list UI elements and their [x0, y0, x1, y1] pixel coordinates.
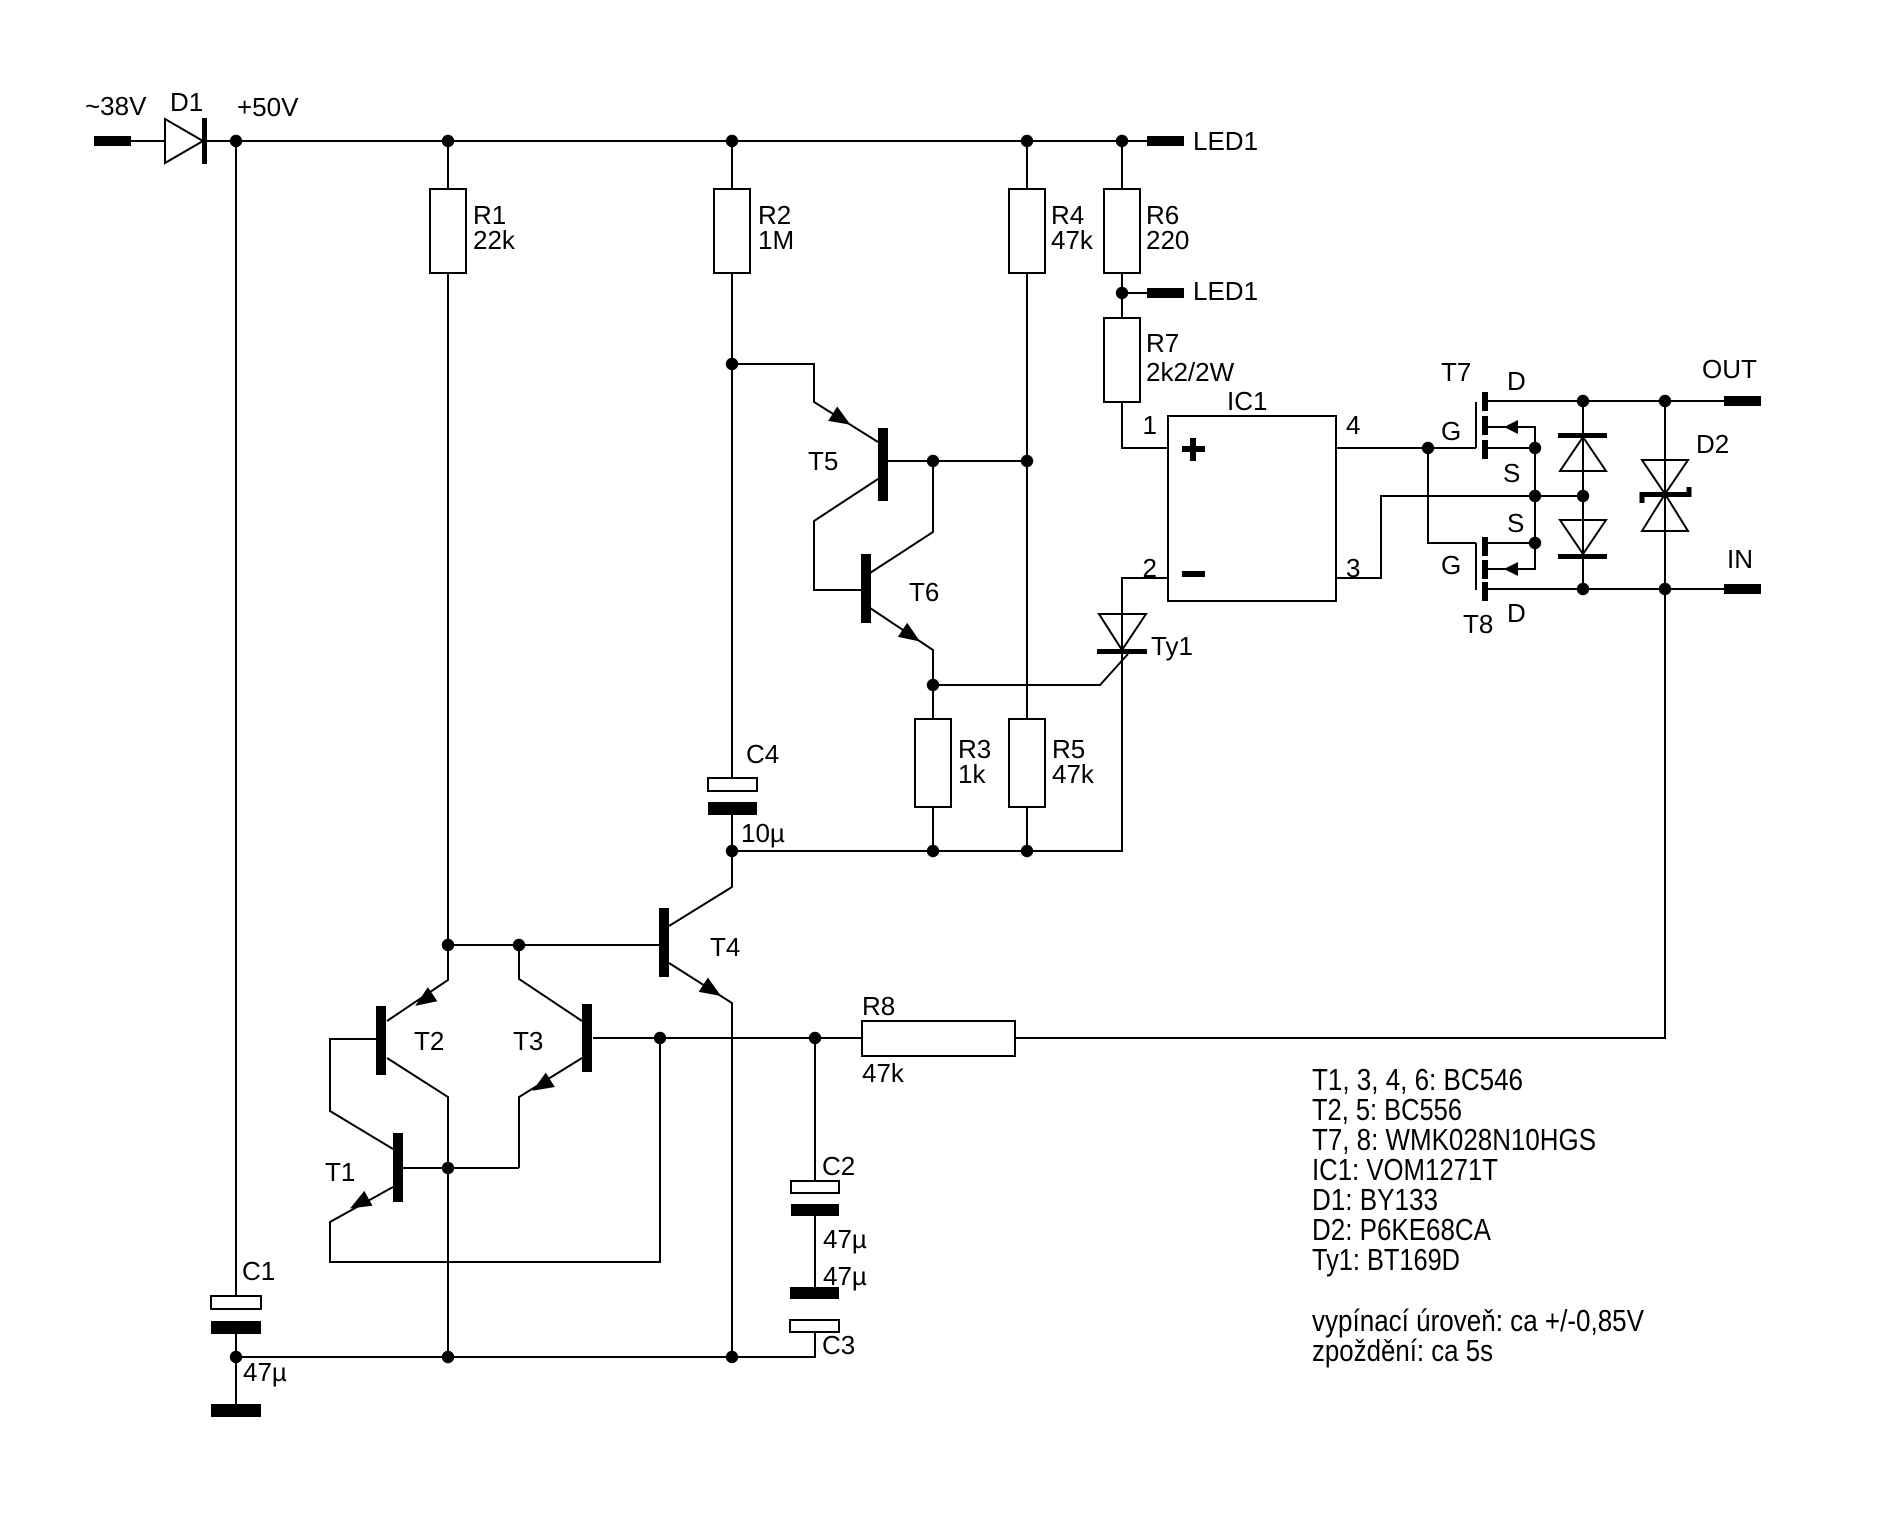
svg-text:Ty1: Ty1 — [1151, 631, 1193, 661]
svg-text:C4: C4 — [746, 739, 779, 769]
svg-text:C2: C2 — [822, 1151, 855, 1181]
svg-text:C1: C1 — [242, 1256, 275, 1286]
svg-text:1M: 1M — [758, 225, 794, 255]
svg-text:47µ: 47µ — [823, 1224, 867, 1254]
svg-text:OUT: OUT — [1702, 354, 1757, 384]
svg-text:T3: T3 — [513, 1026, 543, 1056]
svg-text:R7: R7 — [1146, 328, 1179, 358]
svg-text:C3: C3 — [822, 1330, 855, 1360]
svg-text:T4: T4 — [710, 932, 740, 962]
svg-text:T6: T6 — [909, 577, 939, 607]
svg-text:2k2/2W: 2k2/2W — [1146, 357, 1235, 387]
svg-text:S: S — [1507, 508, 1524, 538]
svg-text:S: S — [1503, 458, 1520, 488]
svg-text:4: 4 — [1346, 410, 1360, 440]
svg-text:3: 3 — [1346, 553, 1360, 583]
svg-text:D2: D2 — [1696, 429, 1729, 459]
svg-text:IN: IN — [1727, 544, 1753, 574]
svg-text:47µ: 47µ — [243, 1357, 287, 1387]
svg-text:zpoždění: ca 5s: zpoždění: ca 5s — [1312, 1333, 1493, 1368]
svg-text:D1: D1 — [170, 87, 203, 117]
svg-text:T7: T7 — [1441, 357, 1471, 387]
svg-text:22k: 22k — [473, 225, 516, 255]
svg-text:R8: R8 — [862, 991, 895, 1021]
svg-text:D: D — [1507, 598, 1526, 628]
svg-text:+50V: +50V — [237, 92, 299, 122]
svg-text:T1: T1 — [325, 1157, 355, 1187]
svg-text:T2: T2 — [414, 1026, 444, 1056]
svg-text:T5: T5 — [808, 446, 838, 476]
svg-text:47k: 47k — [1052, 759, 1095, 789]
svg-text:Ty1: BT169D: Ty1: BT169D — [1312, 1242, 1460, 1277]
svg-text:G: G — [1441, 550, 1461, 580]
svg-text:220: 220 — [1146, 225, 1189, 255]
svg-text:LED1: LED1 — [1193, 126, 1258, 156]
svg-text:2: 2 — [1143, 553, 1157, 583]
svg-text:LED1: LED1 — [1193, 276, 1258, 306]
svg-text:1k: 1k — [958, 759, 986, 789]
svg-text:47µ: 47µ — [823, 1261, 867, 1291]
svg-text:D: D — [1507, 366, 1526, 396]
svg-text:T8: T8 — [1463, 609, 1493, 639]
svg-text:~38V: ~38V — [85, 91, 147, 121]
svg-text:G: G — [1441, 416, 1461, 446]
svg-text:47k: 47k — [862, 1058, 905, 1088]
svg-text:IC1: IC1 — [1227, 386, 1267, 416]
svg-text:1: 1 — [1143, 410, 1157, 440]
svg-text:10µ: 10µ — [741, 818, 785, 848]
svg-text:47k: 47k — [1051, 225, 1094, 255]
